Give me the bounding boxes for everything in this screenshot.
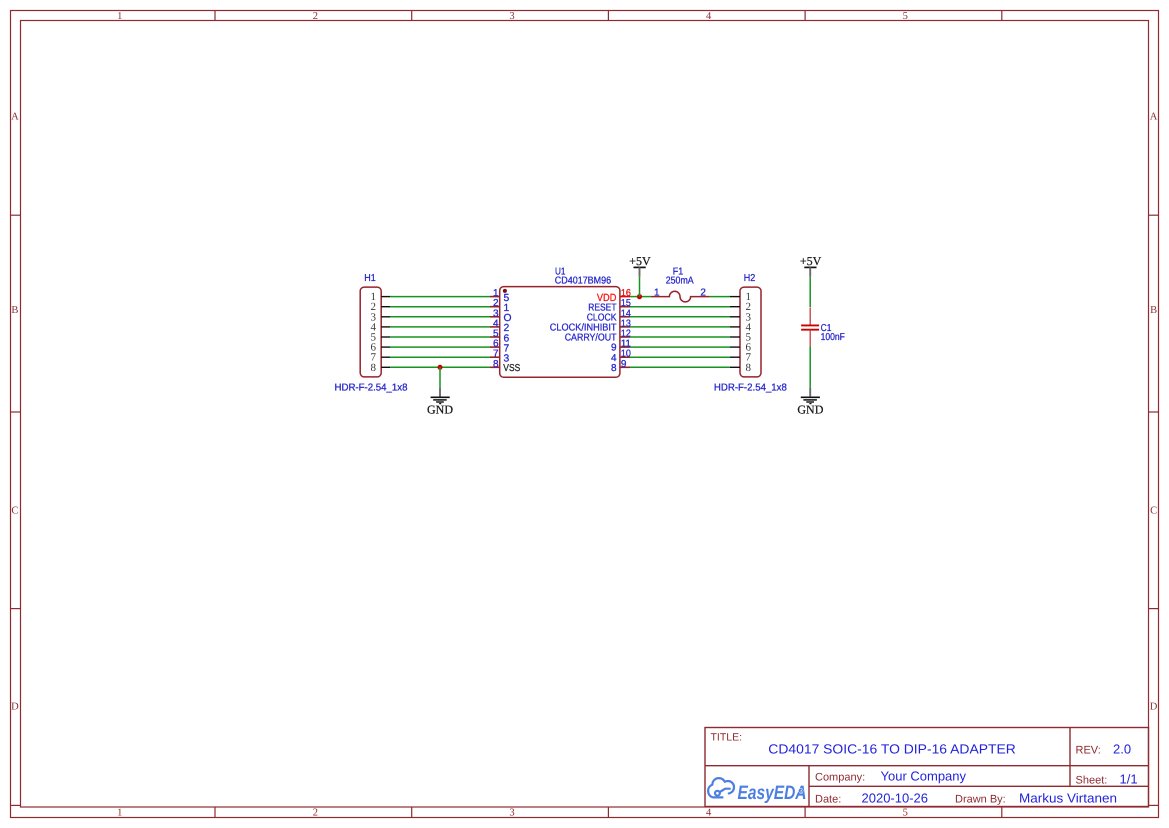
svg-text:5: 5 <box>903 808 908 819</box>
IC U1 CD4017BM96 body <box>500 287 620 378</box>
H2 pin numbers 1-8 <box>745 291 751 374</box>
wire H1 pin 5 to U1 pin 5 <box>390 336 490 338</box>
svg-text:2: 2 <box>313 11 318 22</box>
wire U1 pin 11 to H2 pin 6 <box>630 346 730 348</box>
wire junction to F1 pin 1 <box>640 296 651 298</box>
junction dot on H1 pin 8 net <box>438 365 443 370</box>
wire H1 pin 6 to U1 pin 6 <box>390 346 490 348</box>
svg-text:A: A <box>11 111 19 122</box>
U1 left pin names <box>503 293 520 374</box>
U1 right pins 16-9 (pin 16 highlighted red) <box>620 297 630 368</box>
svg-text:GND: GND <box>797 402 823 416</box>
svg-text:H2: H2 <box>744 273 756 284</box>
U1 left pin numbers 1-8 <box>493 288 499 370</box>
svg-text:A: A <box>1150 111 1158 122</box>
wire U1 pin 9 to H2 pin 8 <box>630 366 730 368</box>
wire U1 pin 13 to H2 pin 4 <box>630 326 730 328</box>
junction dot at +5V node <box>637 294 642 299</box>
svg-text:REV:: REV: <box>1076 744 1101 756</box>
wire U1 pin 15 to H2 pin 2 <box>630 306 730 308</box>
wire H1 pin 8 to U1 pin 8 <box>390 366 490 368</box>
svg-text:Company:: Company: <box>815 772 865 784</box>
wire +5V flag to junction <box>639 277 641 297</box>
svg-text:HDR-F-2.54_1x8: HDR-F-2.54_1x8 <box>714 382 787 393</box>
H1 pin numbers 1-8 <box>370 291 376 374</box>
svg-text:3: 3 <box>509 11 514 22</box>
svg-text:1: 1 <box>117 11 122 22</box>
U1 right pin numbers 16-9 <box>621 288 631 370</box>
svg-text:9: 9 <box>621 359 627 370</box>
svg-text:VSS: VSS <box>503 363 520 374</box>
title block <box>705 728 1149 807</box>
wire U1 pin 12 to H2 pin 5 <box>630 336 730 338</box>
svg-text:D: D <box>1150 702 1158 713</box>
svg-text:3: 3 <box>509 808 514 819</box>
svg-text:4: 4 <box>706 11 712 22</box>
wire F1 pin 2 to H2 pin 1 <box>710 296 730 298</box>
svg-text:+5V: +5V <box>629 254 651 268</box>
svg-text:C: C <box>11 506 18 517</box>
connector H1 (HDR-F-2.54_1x8) <box>360 287 390 377</box>
svg-text:5: 5 <box>903 11 908 22</box>
svg-text:CD4017BM96: CD4017BM96 <box>555 275 612 286</box>
svg-text:H1: H1 <box>364 273 376 284</box>
wire C1 pin 2 to GND flag <box>809 346 811 387</box>
svg-text:2.0: 2.0 <box>1113 741 1131 756</box>
svg-text:Drawn By:: Drawn By: <box>955 794 1006 806</box>
svg-text:GND: GND <box>427 402 453 416</box>
svg-text:4: 4 <box>706 808 712 819</box>
svg-text:1/1: 1/1 <box>1120 771 1138 786</box>
svg-text:C: C <box>1150 506 1157 517</box>
power flag +5V (U1 supply) <box>629 254 651 277</box>
power flag +5V (C1 branch) <box>800 254 822 277</box>
connector H2 (HDR-F-2.54_1x8) <box>730 287 761 377</box>
svg-text:2020-10-26: 2020-10-26 <box>862 791 929 806</box>
wire H1 pin 3 to U1 pin 3 <box>390 316 490 318</box>
svg-text:Markus Virtanen: Markus Virtanen <box>1019 791 1117 806</box>
wire U1 pin 14 to H2 pin 3 <box>630 316 730 318</box>
wire H1 pin 1 to U1 pin 1 <box>390 296 490 298</box>
fuse F1 250mA <box>651 291 710 302</box>
wire H1 pin 7 to U1 pin 7 <box>390 356 490 358</box>
svg-text:B: B <box>1150 305 1157 316</box>
ground flag GND (right) <box>797 387 823 416</box>
svg-text:1: 1 <box>654 288 660 299</box>
svg-text:2: 2 <box>313 808 318 819</box>
svg-text:2: 2 <box>700 288 706 299</box>
ground flag GND (left) <box>427 388 453 417</box>
svg-text:+5V: +5V <box>800 254 822 268</box>
svg-text:8: 8 <box>611 363 617 374</box>
svg-text:Sheet:: Sheet: <box>1076 774 1108 786</box>
svg-text:100nF: 100nF <box>821 332 845 343</box>
svg-text:8: 8 <box>370 362 376 374</box>
wire H1 pin 2 to U1 pin 2 <box>390 306 490 308</box>
svg-text:CARRY/OUT: CARRY/OUT <box>565 333 617 344</box>
svg-text:Your Company: Your Company <box>881 769 967 784</box>
svg-text:250mA: 250mA <box>666 276 694 287</box>
svg-text:CD4017 SOIC-16 TO DIP-16 ADAPT: CD4017 SOIC-16 TO DIP-16 ADAPTER <box>768 742 1016 757</box>
svg-text:1: 1 <box>117 808 122 819</box>
svg-text:8: 8 <box>493 359 499 370</box>
svg-text:EasyEDA: EasyEDA <box>738 782 807 804</box>
wire +5V flag to C1 pin 1 <box>809 277 811 307</box>
svg-text:HDR-F-2.54_1x8: HDR-F-2.54_1x8 <box>335 382 408 393</box>
svg-text:Date:: Date: <box>815 794 841 806</box>
U1 right pin names <box>550 292 617 374</box>
wire junction down to GND flag <box>439 367 441 387</box>
svg-text:TITLE:: TITLE: <box>711 732 743 744</box>
svg-text:8: 8 <box>745 362 751 374</box>
wire U1 pin 16 to node +5V junction <box>630 296 640 298</box>
svg-text:B: B <box>11 305 18 316</box>
capacitor C1 100nF <box>801 307 819 346</box>
wire U1 pin 10 to H2 pin 7 <box>630 356 730 358</box>
wire H1 pin 4 to U1 pin 4 <box>390 326 490 328</box>
U1 left pins 1-8 <box>490 297 500 368</box>
svg-text:D: D <box>11 702 19 713</box>
